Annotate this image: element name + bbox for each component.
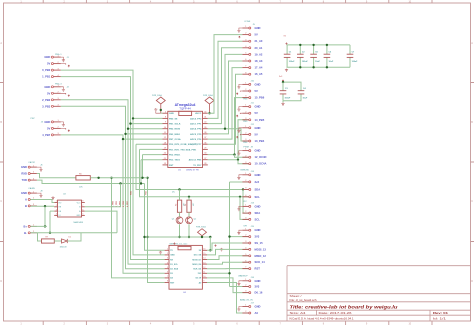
capacitor C6 10uF	[324, 45, 334, 67]
junction	[122, 138, 124, 140]
svg-text:3_PB3: 3_PB3	[42, 104, 51, 108]
power symbol 3v3	[279, 76, 284, 82]
capacitor C5 10uF	[310, 45, 320, 67]
svg-text:A0: A0	[255, 311, 259, 315]
wire B- run	[30, 232, 117, 234]
svg-text:Rev: 01: Rev: 01	[433, 311, 449, 315]
diode D1 1N4148	[60, 237, 72, 249]
svg-text:5V: 5V	[255, 33, 258, 37]
svg-text:GND: GND	[44, 85, 50, 89]
svg-text:I2C: I2C	[172, 191, 176, 193]
svg-text:3v3: 3v3	[255, 180, 260, 184]
svg-text:D0_16: D0_16	[255, 291, 263, 295]
svg-text:B+: B+	[23, 224, 27, 228]
resistor R4	[185, 200, 195, 212]
junction	[127, 128, 129, 130]
svg-text:A: A	[25, 198, 27, 202]
svg-text:18_A3: 18_A3	[255, 59, 263, 63]
junction	[119, 182, 121, 184]
pin B+	[23, 224, 36, 228]
svg-text:GND: GND	[170, 255, 175, 257]
svg-text:SPI: SPI	[243, 226, 247, 228]
svg-text:8: 8	[82, 201, 83, 203]
wire CA485 B to U2	[30, 205, 54, 207]
svg-text:Size: A4: Size: A4	[290, 311, 307, 315]
svg-text:1N4148: 1N4148	[60, 246, 68, 248]
svg-text:20_A1: 20_A1	[255, 46, 263, 50]
wire Q2 emitter	[188, 224, 190, 237]
svg-text:GND: GND	[21, 165, 27, 169]
wire tap 3_PB3 to MCU	[126, 133, 163, 135]
junction	[49, 232, 51, 234]
svg-text:AVCC: AVCC	[195, 112, 201, 115]
svg-text:PD1_INT1_TWI_SDA_PW1: PD1_INT1_TWI_SDA_PW1	[169, 148, 197, 151]
svg-text:4: 4	[167, 262, 168, 264]
junction	[224, 128, 226, 130]
mcu U1 ATmega32u4	[163, 103, 208, 171]
svg-text:PB7_OC0A: PB7_OC0A	[169, 138, 181, 141]
svg-text:3: 3	[56, 209, 57, 211]
svg-text:GND: GND	[255, 105, 261, 109]
wire MCU ADC to J5	[208, 54, 243, 128]
svg-text:PB0_SS: PB0_SS	[169, 118, 178, 120]
svg-text:0_PB0: 0_PB0	[42, 68, 51, 72]
junction	[282, 81, 284, 83]
junction	[237, 159, 239, 161]
power flag PWR_FLAG right	[203, 94, 214, 113]
wire RXD to R6	[37, 174, 76, 178]
svg-text:12_OC4D: 12_OC4D	[255, 155, 267, 159]
wire U4 RST to SPI connector	[207, 268, 249, 270]
svg-text:7: 7	[82, 205, 83, 207]
svg-text:C: C	[471, 200, 473, 203]
title block	[287, 266, 471, 321]
svg-text:ANALOG_IN: ANALOG_IN	[240, 298, 253, 301]
svg-text:8: 8	[167, 281, 168, 283]
svg-text:10uF: 10uF	[303, 98, 308, 100]
svg-text:GND: GND	[255, 204, 261, 208]
wire node vertical to B+	[44, 206, 46, 226]
connector J9 PWM	[237, 147, 266, 166]
svg-text:16: 16	[203, 249, 205, 251]
svg-text:PD2_RXD1: PD2_RXD1	[169, 155, 181, 157]
svg-text:GND: GND	[169, 113, 174, 115]
svg-text:GND: GND	[255, 82, 261, 86]
wire 3V3 to BME280	[230, 181, 249, 183]
svg-text:6: 6	[82, 209, 83, 211]
wire MCU ADC to J5	[208, 74, 243, 144]
svg-text:5: 5	[82, 214, 83, 216]
wire to 10_OC4A	[238, 160, 249, 164]
ground symbol at MCU pin 1	[154, 108, 161, 113]
svg-text:R4: R4	[185, 204, 187, 206]
svg-text:6: 6	[167, 272, 168, 274]
wire MCU ADC to J5	[208, 61, 243, 134]
svg-text:5V: 5V	[47, 62, 50, 66]
wire R4 top	[188, 197, 190, 200]
svg-text:SDA: SDA	[255, 211, 261, 215]
connector J6 CA232	[21, 161, 43, 182]
wire U4 A0 to connector	[207, 283, 249, 314]
svg-text:D: D	[0, 280, 2, 283]
svg-text:PWR_FLAG: PWR_FLAG	[152, 94, 162, 97]
transistor Q1	[172, 217, 183, 224]
wire 3V3 to wakeup connector	[230, 286, 249, 288]
wire tap 1_PB1 to MCU	[131, 123, 163, 125]
svg-text:PB2_MOSI: PB2_MOSI	[169, 129, 180, 131]
junction	[129, 122, 131, 124]
svg-text:GND: GND	[21, 191, 27, 195]
wire Q2 collector	[188, 212, 190, 216]
wire loop left	[38, 233, 42, 241]
wire U4 D0 to connector	[207, 278, 249, 293]
svg-text:RST: RST	[169, 165, 174, 167]
svg-text:ADC5_PF5: ADC5_PF5	[190, 133, 202, 136]
wire U2 right A	[85, 184, 121, 207]
svg-text:D1_SCL: D1_SCL	[170, 264, 178, 266]
svg-text:Id: 1/1: Id: 1/1	[433, 316, 447, 320]
svg-text:SCL: SCL	[255, 195, 261, 199]
connector J11	[236, 103, 264, 123]
svg-text:100nF: 100nF	[302, 61, 309, 63]
connector J17 ANALOG_IN	[237, 298, 260, 315]
svg-text:13: 13	[203, 262, 205, 264]
capacitor C3 100nF	[280, 82, 291, 101]
junction	[209, 249, 211, 251]
svg-text:ADC4_PF4: ADC4_PF4	[190, 128, 202, 131]
ground symbol near U4	[159, 251, 162, 254]
svg-text:3V3: 3V3	[255, 235, 260, 239]
svg-text:21_A0: 21_A0	[255, 39, 263, 43]
wire MCU ADC to J5	[208, 68, 243, 140]
junction	[299, 44, 301, 46]
wire 4_PB7 net	[61, 135, 165, 273]
wire U4 MOSI to SPI connector	[207, 249, 249, 255]
svg-text:D10_SS: D10_SS	[194, 255, 202, 257]
svg-text:0_PB0: 0_PB0	[112, 201, 114, 207]
svg-text:PB1_SCLK: PB1_SCLK	[169, 124, 181, 126]
power arrow at J5 5V	[239, 36, 241, 38]
wire bus TXD down to U4	[145, 184, 165, 251]
junction	[188, 236, 190, 238]
junction	[160, 109, 162, 111]
svg-text:T0_PD7: T0_PD7	[193, 165, 202, 167]
svg-text:TXD: TXD	[145, 191, 147, 195]
svg-text:GND: GND	[255, 26, 261, 30]
svg-text:5: 5	[167, 267, 168, 269]
svg-text:17_A4: 17_A4	[255, 66, 263, 70]
svg-text:PB0+1: PB0+1	[55, 54, 62, 56]
svg-text:GND: GND	[255, 126, 261, 130]
svg-text:16_A5: 16_A5	[255, 72, 263, 76]
wire 5V rail	[287, 44, 351, 46]
power symbol 5V cap bank	[284, 36, 288, 45]
svg-text:PD3_TXD1: PD3_TXD1	[169, 160, 181, 162]
junction	[242, 188, 244, 190]
svg-text:SS_15: SS_15	[255, 241, 264, 245]
svg-text:MISO_12: MISO_12	[255, 254, 267, 258]
wire bus RXD down to U4 pin7	[112, 178, 165, 278]
wire U4 SS to SPI connector	[207, 243, 249, 250]
connector J3 PB7	[31, 118, 70, 137]
svg-text:D0_W: D0_W	[196, 278, 202, 280]
wire SDA net	[136, 143, 163, 145]
svg-text:GND: GND	[255, 228, 261, 232]
pin B-	[24, 231, 37, 235]
svg-text:4: 4	[56, 214, 57, 216]
svg-text:GND: GND	[255, 305, 261, 309]
wire MCU RXD1 tap	[143, 154, 163, 156]
svg-text:ADC6_PF6: ADC6_PF6	[190, 138, 202, 141]
svg-text:5V: 5V	[255, 132, 258, 136]
svg-text:GND: GND	[44, 120, 50, 124]
svg-text:10uF: 10uF	[329, 61, 334, 63]
wire MCU TXD1 tap	[141, 159, 163, 161]
junction	[178, 236, 180, 238]
svg-text:WEMOS_D1_mini: WEMOS_D1_mini	[170, 243, 188, 245]
svg-text:File: cl_iot_board.sch: File: cl_iot_board.sch	[290, 298, 317, 302]
junction	[143, 236, 145, 238]
svg-text:1_PB1: 1_PB1	[116, 201, 118, 207]
svg-text:15_PB6: 15_PB6	[255, 96, 265, 100]
wire U4 SCK to SPI connector	[207, 262, 249, 264]
wire D1 to loop right	[67, 233, 81, 241]
svg-text:PWR_FLAG: PWR_FLAG	[203, 94, 213, 97]
capacitor C4 10uF	[298, 87, 308, 100]
junction	[233, 153, 235, 155]
junction	[140, 182, 142, 184]
svg-text:4K7: 4K7	[193, 203, 195, 206]
wire tap 2_PB2 to MCU	[128, 128, 163, 130]
ground symbol 3v3 group	[281, 102, 284, 105]
svg-text:ADC7_PF7: ADC7_PF7	[190, 143, 202, 146]
wire to 12_OC4D	[235, 155, 249, 158]
svg-text:4_PB7: 4_PB7	[42, 133, 51, 137]
junction	[44, 225, 46, 227]
svg-text:3V3: 3V3	[255, 285, 260, 289]
svg-text:SDA: SDA	[255, 188, 261, 192]
svg-text:MOSI_D7: MOSI_D7	[192, 259, 202, 261]
svg-text:5V: 5V	[47, 91, 50, 95]
svg-text:PWR_FLAG: PWR_FLAG	[196, 225, 206, 228]
wire 3_PB3 net	[61, 106, 165, 268]
svg-text:MAX3485: MAX3485	[74, 221, 84, 224]
svg-text:SCL: SCL	[255, 217, 261, 221]
power arrow near U4 left	[174, 243, 176, 245]
capacitor C2 100nF	[297, 45, 308, 67]
ground symbol near U4 right	[220, 248, 223, 251]
svg-text:100nF: 100nF	[352, 61, 359, 63]
svg-text:GND: GND	[255, 149, 261, 153]
svg-text:1: 1	[167, 249, 168, 251]
wire R7 to D1	[54, 240, 61, 242]
wire Q1 collector	[179, 212, 181, 216]
module U4 WEMOS D1 mini	[165, 243, 207, 293]
svg-text:10_OC4A: 10_OC4A	[255, 162, 267, 166]
svg-text:PB2+3: PB2+3	[55, 84, 62, 86]
junction	[141, 177, 143, 179]
svg-text:16MHz XT PB: 16MHz XT PB	[186, 170, 199, 172]
svg-text:10: 10	[203, 276, 205, 278]
svg-text:13_PB4: 13_PB4	[255, 139, 265, 143]
junction	[132, 117, 134, 119]
svg-text:KiCad E.D.A. kicad 4.0.4-e0-6: KiCad E.D.A. kicad 4.0.4-e0-6349~ubuntu1…	[290, 316, 355, 320]
svg-text:1_PB1: 1_PB1	[42, 75, 51, 79]
transistor Q2	[186, 217, 197, 224]
resistor R6	[76, 174, 90, 189]
svg-text:5V: 5V	[47, 126, 50, 130]
junction	[188, 196, 190, 198]
junction	[124, 133, 126, 135]
svg-text:4_PB7: 4_PB7	[126, 201, 129, 207]
svg-text:9: 9	[203, 281, 204, 283]
wire U2 pin3 to B- net	[50, 210, 54, 212]
svg-text:100nF: 100nF	[285, 98, 292, 100]
wire U2 right B	[85, 211, 117, 233]
svg-text:CA232: CA232	[28, 161, 35, 164]
ic U2 MAX3485	[51, 193, 84, 224]
connector J5 CON8	[237, 21, 263, 76]
connector J15 SPI	[237, 226, 266, 271]
capacitor C1 100nF	[284, 45, 295, 67]
junction	[146, 236, 148, 238]
wire 2_PB2 net	[61, 100, 165, 264]
svg-text:CON8: CON8	[244, 21, 251, 23]
svg-text:CA485: CA485	[28, 187, 35, 190]
wire 3V3 to SPI	[230, 236, 249, 238]
svg-text:14_PB5: 14_PB5	[255, 118, 265, 122]
junction	[146, 177, 148, 179]
power flag PWR_FLAG left	[152, 94, 165, 113]
junction	[312, 66, 314, 68]
svg-text:2_PB2: 2_PB2	[42, 98, 51, 102]
wire MCU GND pin	[161, 112, 163, 114]
wire node to U4	[209, 237, 211, 250]
svg-text:MISO_D6: MISO_D6	[192, 264, 202, 266]
junction	[299, 66, 301, 68]
junction	[208, 112, 210, 114]
svg-text:ADC12_PB6: ADC12_PB6	[189, 159, 202, 162]
svg-text:Q2: Q2	[194, 218, 197, 220]
ground symbol cap bank	[285, 69, 288, 72]
junction	[239, 196, 241, 198]
svg-text:2: 2	[56, 205, 57, 207]
svg-text:GND: GND	[255, 279, 261, 283]
connector J2 PB2+3	[42, 84, 70, 109]
wire MCU ADC to J5	[208, 48, 243, 124]
wire GND rail	[287, 66, 351, 68]
junction	[201, 236, 203, 238]
junction	[110, 177, 112, 179]
wire vertical node B down	[148, 178, 165, 283]
resistor R3	[176, 200, 186, 212]
wire SDA to I2C connector	[243, 190, 249, 214]
capacitor C7 100nF	[347, 45, 358, 67]
wire U4 MISO to SPI connector	[207, 256, 249, 260]
junction	[209, 236, 211, 238]
junction	[97, 177, 99, 179]
svg-text:ADC0_PF0: ADC0_PF0	[190, 117, 202, 120]
wire MCU to 15_PB6	[208, 98, 249, 155]
connector J8 CA485	[21, 187, 43, 208]
svg-text:RXD: RXD	[21, 172, 27, 176]
wire R3 top	[179, 190, 181, 201]
resistor R7	[42, 237, 55, 243]
svg-text:10uF: 10uF	[315, 61, 320, 63]
svg-text:TXD: TXD	[22, 178, 27, 182]
svg-text:R3: R3	[176, 204, 178, 206]
connector J1 PB0+1	[42, 54, 70, 79]
svg-text:B-: B-	[24, 231, 27, 235]
connector J13 I2C	[237, 201, 260, 221]
svg-text:D: D	[471, 280, 473, 283]
svg-text:TQFP-44: TQFP-44	[179, 107, 191, 111]
svg-text:C: C	[0, 200, 2, 203]
wire SCL net	[140, 148, 163, 150]
junction	[312, 44, 314, 46]
wire tap 4_PB7 to MCU	[123, 138, 163, 140]
svg-text:7: 7	[167, 276, 168, 278]
svg-text:BME280: BME280	[241, 170, 250, 172]
wire 3v3 cap rails	[283, 82, 301, 91]
wire tap 0_PB0 to MCU	[133, 117, 163, 119]
svg-text:PB3_MISO: PB3_MISO	[169, 134, 180, 136]
svg-text:Date: 2017-03-26: Date: 2017-03-26	[319, 311, 353, 315]
svg-text:19_A2: 19_A2	[255, 52, 263, 56]
junction	[326, 44, 328, 46]
svg-text:3: 3	[167, 258, 168, 260]
svg-text:ADC1_PF1: ADC1_PF1	[190, 123, 202, 126]
connector J14 BME280	[237, 170, 260, 199]
wire B+ run	[30, 225, 47, 227]
svg-text:SCK_D5: SCK_D5	[193, 269, 202, 271]
wire rail 237	[145, 236, 211, 238]
svg-text:2: 2	[167, 253, 168, 255]
svg-text:B: B	[25, 204, 27, 208]
svg-text:5V: 5V	[255, 89, 258, 93]
svg-text:GND: GND	[255, 173, 261, 177]
wire CA485 A to U2	[30, 200, 54, 203]
junction	[228, 272, 230, 274]
svg-text:SCK_14: SCK_14	[255, 260, 266, 264]
power arrow near U4 right	[215, 245, 217, 247]
svg-text:12: 12	[203, 267, 205, 269]
svg-text:GND: GND	[76, 215, 81, 217]
wire TXD run	[37, 180, 145, 183]
svg-text:WAKEUP: WAKEUP	[238, 275, 248, 278]
svg-text:1: 1	[56, 201, 57, 203]
wire to 13_PB4	[225, 129, 249, 141]
svg-text:MOSI_13: MOSI_13	[255, 247, 267, 251]
svg-text:RST: RST	[255, 267, 261, 271]
wire R6 to bus	[90, 177, 147, 179]
wire 1_PB1 net	[61, 77, 165, 260]
connector J12	[236, 124, 264, 144]
svg-text:100nF: 100nF	[289, 61, 296, 63]
wire 0_PB0 net	[61, 70, 165, 255]
junction	[178, 188, 180, 190]
svg-text:I2C: I2C	[243, 201, 247, 203]
svg-text:11: 11	[203, 272, 205, 274]
svg-text:5V: 5V	[255, 111, 258, 115]
svg-text:Title: creative-lab iot board: Title: creative-lab iot board by weigu.l…	[290, 305, 398, 310]
wire Q1 emitter	[179, 224, 181, 237]
connector J16 WAKEUP	[237, 275, 263, 295]
connector J10	[236, 80, 264, 100]
wire 5V net MCU VCC to J5	[208, 35, 243, 114]
wire MCU to 14_PB5	[208, 120, 249, 160]
junction	[44, 205, 46, 207]
